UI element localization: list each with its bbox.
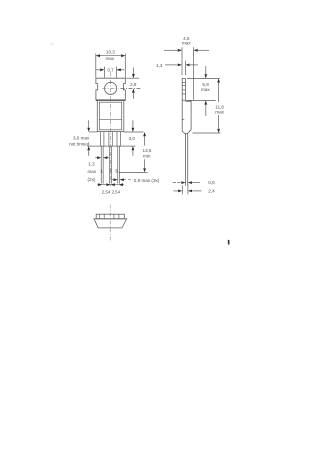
- body mid line: [99, 118, 121, 120]
- tinning boundary line across leads: [87, 145, 135, 147]
- dimension 0,6 (lead thickness, side): [173, 182, 200, 184]
- dimension 5,9 max (tab top to body top): [189, 66, 216, 116]
- dimension 4,5 max (side thickness): [164, 49, 209, 51]
- stray page mark: [228, 240, 230, 245]
- svg-text:not tinned: not tinned: [69, 141, 90, 146]
- bottom view centerline: [109, 205, 111, 243]
- body outer rectangle: [97, 100, 124, 131]
- svg-text:3,0: 3,0: [129, 136, 136, 141]
- dimension 1,3 max (2x) lead width: [95, 157, 109, 159]
- lead 2: [109, 132, 112, 184]
- mounting hole horizontal centerline: [102, 87, 119, 89]
- dimension 3,0 (right, body bottom to tinning line): [124, 120, 144, 156]
- svg-text:1,3: 1,3: [156, 63, 163, 68]
- side view lead: [186, 134, 188, 186]
- svg-text:10,3: 10,3: [106, 50, 115, 55]
- svg-text:max: max: [106, 56, 115, 61]
- dimension 2,54 2,54 lead pitch: [97, 184, 124, 186]
- dimension 1,3 (tab thickness, side): [165, 64, 198, 66]
- svg-text:1,3: 1,3: [88, 162, 95, 167]
- svg-text:2: 2: [109, 169, 112, 175]
- svg-text:3,7: 3,7: [107, 67, 114, 72]
- lead 1: [101, 132, 104, 184]
- svg-text:2,4: 2,4: [208, 188, 215, 193]
- svg-text:2,8: 2,8: [130, 82, 137, 87]
- svg-text:2,54 2,54: 2,54 2,54: [102, 190, 121, 195]
- dimension 10,3 max (front width): [96, 54, 126, 78]
- side view tab strip with serrations: [182, 79, 185, 101]
- side view body: [182, 100, 191, 133]
- svg-text:(2x): (2x): [88, 177, 96, 182]
- svg-text:max: max: [87, 169, 96, 174]
- svg-text:1: 1: [100, 169, 103, 175]
- dimension 11,6 max (tab top to body bottom): [193, 83, 221, 133]
- mounting hole: [105, 82, 117, 94]
- bottom view tab strip: [96, 214, 124, 219]
- dimension 0,9 max (3x) lead thickness: [112, 179, 131, 181]
- front view tab outline with side notches: [96, 78, 125, 100]
- dimension 2,4 (front face to lead, side): [174, 185, 202, 195]
- svg-text:max: max: [215, 109, 224, 114]
- dimension 2,8 (tab top to hole center): [121, 68, 141, 99]
- side view: extension lines: [182, 47, 194, 100]
- svg-text:0,9 max (3x): 0,9 max (3x): [134, 178, 160, 183]
- svg-text:13,5: 13,5: [143, 148, 152, 153]
- faint smudge top left: [50, 42, 53, 45]
- seating line at tab bottom: [96, 99, 125, 101]
- lead 3: [117, 132, 120, 184]
- front view centerline: [110, 72, 112, 186]
- annotation 3,0 max not tinned (left): [89, 120, 98, 156]
- dimension 3,7 (hole diameter): [96, 67, 125, 78]
- svg-text:min: min: [143, 154, 151, 159]
- svg-text:0,6: 0,6: [208, 180, 215, 185]
- front view: package outline: [87, 72, 135, 186]
- bottom view body trapezoid: [94, 219, 127, 228]
- svg-text:3,0 max: 3,0 max: [73, 135, 90, 140]
- side view top reference line (tab top extended): [187, 77, 220, 79]
- svg-text:3: 3: [115, 169, 118, 175]
- svg-text:max: max: [201, 87, 210, 92]
- svg-text:max: max: [182, 41, 191, 46]
- body inner rectangle: [99, 102, 121, 130]
- dimension 13,5 min (lead length): [119, 136, 148, 172]
